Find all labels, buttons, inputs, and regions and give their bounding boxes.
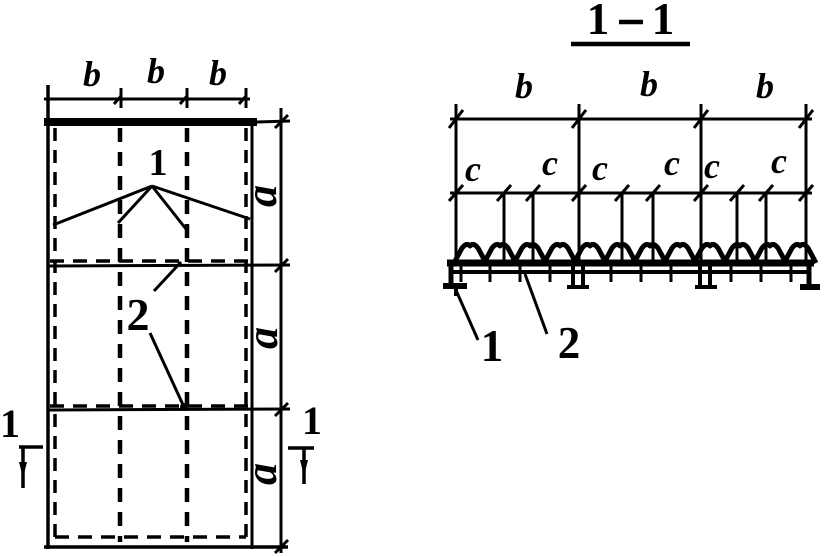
section main vertical x=701 [700, 104, 703, 262]
dashed inner left line [53, 128, 57, 542]
dashed joist line A [118, 128, 123, 542]
section c dimension line [450, 192, 812, 195]
svg-text:2: 2 [127, 289, 150, 340]
section mark right symbol [288, 448, 314, 484]
section b dimension line [450, 118, 812, 121]
channel left foot [443, 283, 467, 289]
channel right turndown [807, 260, 812, 285]
plan divider line 1 [48, 265, 290, 266]
section callout 2 leader [525, 274, 547, 334]
svg-text:c: c [771, 141, 787, 181]
corrugated sheet arches [454, 244, 816, 263]
svg-text:1: 1 [0, 401, 20, 446]
svg-text:b: b [640, 64, 658, 104]
svg-text:b: b [515, 66, 533, 106]
tick on right dimension line y=547 [275, 540, 288, 553]
dashed bottom inner line [55, 535, 246, 539]
dashed inner right line [244, 128, 248, 542]
dimension tick x=48 [47, 88, 50, 108]
slash tick b-line x=806 [799, 110, 813, 128]
channel right foot [800, 284, 820, 290]
section minor vertical x=533 [532, 193, 535, 262]
section minor vertical x=766 [765, 193, 768, 262]
section minor vertical x=653 [652, 193, 655, 262]
tick on right dimension line y=410 [275, 403, 288, 416]
callout 1 leader ray to right edge [152, 186, 250, 219]
svg-text:2: 2 [558, 318, 581, 368]
T-foot support 1 [567, 263, 589, 287]
plan top dimension line [44, 98, 250, 101]
svg-text:a: a [237, 185, 286, 207]
slash tick b-line x=701 [694, 110, 708, 128]
svg-text:b: b [209, 53, 227, 93]
dashed joist line B [185, 128, 190, 542]
section mark right arrowhead [300, 460, 308, 476]
callout 2 arrow dot [180, 403, 188, 411]
valley stubs below channel [461, 263, 791, 282]
svg-text:a: a [238, 327, 287, 349]
section minor vertical x=737 [736, 193, 739, 262]
plan left edge [46, 85, 50, 549]
channel left turndown [449, 260, 454, 285]
svg-text:c: c [465, 149, 481, 189]
callout 1 leader ray to joist A [118, 186, 152, 223]
svg-text:1: 1 [149, 142, 168, 184]
callout 1 leader ray to joist B [152, 186, 186, 229]
section main vertical x=806 [805, 104, 808, 262]
svg-text:1: 1 [481, 321, 504, 371]
section mark left arrowhead [19, 462, 27, 478]
dimension tick x=246 [239, 88, 246, 108]
right dimension line vertical [280, 108, 283, 553]
section callout 1 leader [455, 288, 478, 340]
svg-text:c: c [592, 148, 608, 188]
plan top edge extension to dimension line [257, 121, 290, 122]
svg-text:c: c [542, 143, 558, 183]
dimension tick x=187 [180, 88, 187, 108]
slash tick b-line x=579 [572, 110, 586, 128]
section main vertical x=456 [455, 104, 458, 262]
svg-text:b: b [147, 51, 165, 91]
plan divider line 2 [48, 409, 290, 410]
section title underline [571, 42, 690, 47]
plan thick top edge [44, 118, 257, 126]
section mark left symbol [19, 447, 43, 488]
svg-text:1: 1 [587, 0, 610, 44]
dashed line above divider 2 [50, 404, 250, 408]
tick on right dimension line y=266 [275, 259, 288, 272]
slash ticks c-line [449, 185, 813, 201]
section minor vertical x=622 [621, 193, 624, 262]
tick on right dimension line y=122 [275, 115, 288, 128]
svg-text:c: c [704, 146, 720, 186]
callout 1 leader ray to left edge [53, 186, 152, 225]
channel bottom line [453, 270, 809, 274]
callout 2 lower leader [150, 333, 184, 407]
svg-text:1: 1 [302, 398, 322, 443]
svg-text:b: b [756, 66, 774, 106]
channel top flange (thick) [447, 260, 814, 267]
svg-text:1: 1 [652, 0, 675, 44]
svg-text:a: a [237, 463, 286, 485]
svg-text:b: b [83, 54, 101, 94]
plan bottom edge [44, 545, 288, 549]
dashed line above divider 1 [50, 259, 250, 263]
section main vertical x=579 [578, 104, 581, 262]
channel left foot tail [454, 288, 458, 296]
callout 2 upper leader [154, 262, 181, 291]
svg-text:c: c [664, 143, 680, 183]
dimension tick x=121 [114, 88, 121, 108]
T-foot support 2 [695, 265, 717, 287]
plan right edge [251, 122, 254, 549]
slash tick b-line x=456 [449, 110, 463, 128]
section minor vertical x=504 [503, 193, 506, 262]
